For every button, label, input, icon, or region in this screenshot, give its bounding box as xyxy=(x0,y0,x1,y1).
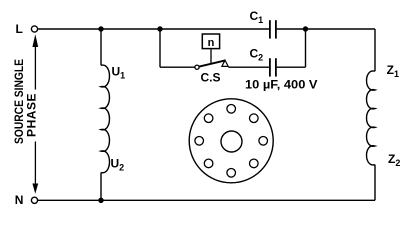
terminal L xyxy=(31,26,37,32)
wire CS branch to switch xyxy=(160,66,195,68)
switch CS pivot circle xyxy=(195,65,199,69)
source arrow shaft upper xyxy=(34,46,36,90)
svg-text:N: N xyxy=(15,193,24,207)
svg-text:C.S: C.S xyxy=(201,71,221,85)
node junction top at U branch xyxy=(98,26,103,31)
wire switch to C2 xyxy=(228,66,269,68)
switch CS blade xyxy=(199,60,225,66)
svg-text:10 µF, 400 V: 10 µF, 400 V xyxy=(245,78,318,92)
svg-text:C2: C2 xyxy=(250,47,264,63)
source arrow head up xyxy=(32,34,38,47)
inductor U winding xyxy=(101,65,109,173)
wire U branch lower xyxy=(100,173,102,201)
svg-text:n: n xyxy=(208,37,215,49)
wire U branch upper xyxy=(100,29,102,65)
capacitor C1 xyxy=(270,20,276,38)
wire C2 to right riser xyxy=(277,66,306,68)
wire right vertical upper xyxy=(374,29,376,71)
svg-text:L: L xyxy=(16,22,23,36)
wire top L line xyxy=(38,28,269,30)
terminal N xyxy=(31,197,37,203)
source arrow head down xyxy=(32,184,38,194)
switch CS contact triangle xyxy=(222,60,228,66)
wire top right of C1 xyxy=(277,28,375,30)
motor shaft center circle xyxy=(221,131,242,152)
node junction bottom at U branch xyxy=(98,198,103,203)
motor conductor circles xyxy=(195,105,268,178)
wire right vertical lower xyxy=(374,165,376,201)
svg-text:U1: U1 xyxy=(112,64,126,80)
svg-text:Z2: Z2 xyxy=(388,152,400,168)
wire bottom N line xyxy=(38,199,375,201)
svg-text:C1: C1 xyxy=(250,9,264,25)
svg-text:Z1: Z1 xyxy=(387,63,399,79)
source arrow shaft lower xyxy=(34,142,36,185)
wire CS branch vertical from top xyxy=(159,29,161,67)
node junction top at riser xyxy=(303,26,308,31)
svg-text:U2: U2 xyxy=(111,156,125,172)
node junction top at CS branch xyxy=(157,26,162,31)
wire box to blade xyxy=(210,49,212,64)
svg-text:PHASE: PHASE xyxy=(24,93,38,137)
capacitor C2 xyxy=(270,58,276,76)
wire riser up to top xyxy=(305,29,307,67)
inductor Z winding xyxy=(367,71,375,165)
motor rotor outer circle xyxy=(189,99,273,183)
relay coil box n xyxy=(202,34,219,49)
